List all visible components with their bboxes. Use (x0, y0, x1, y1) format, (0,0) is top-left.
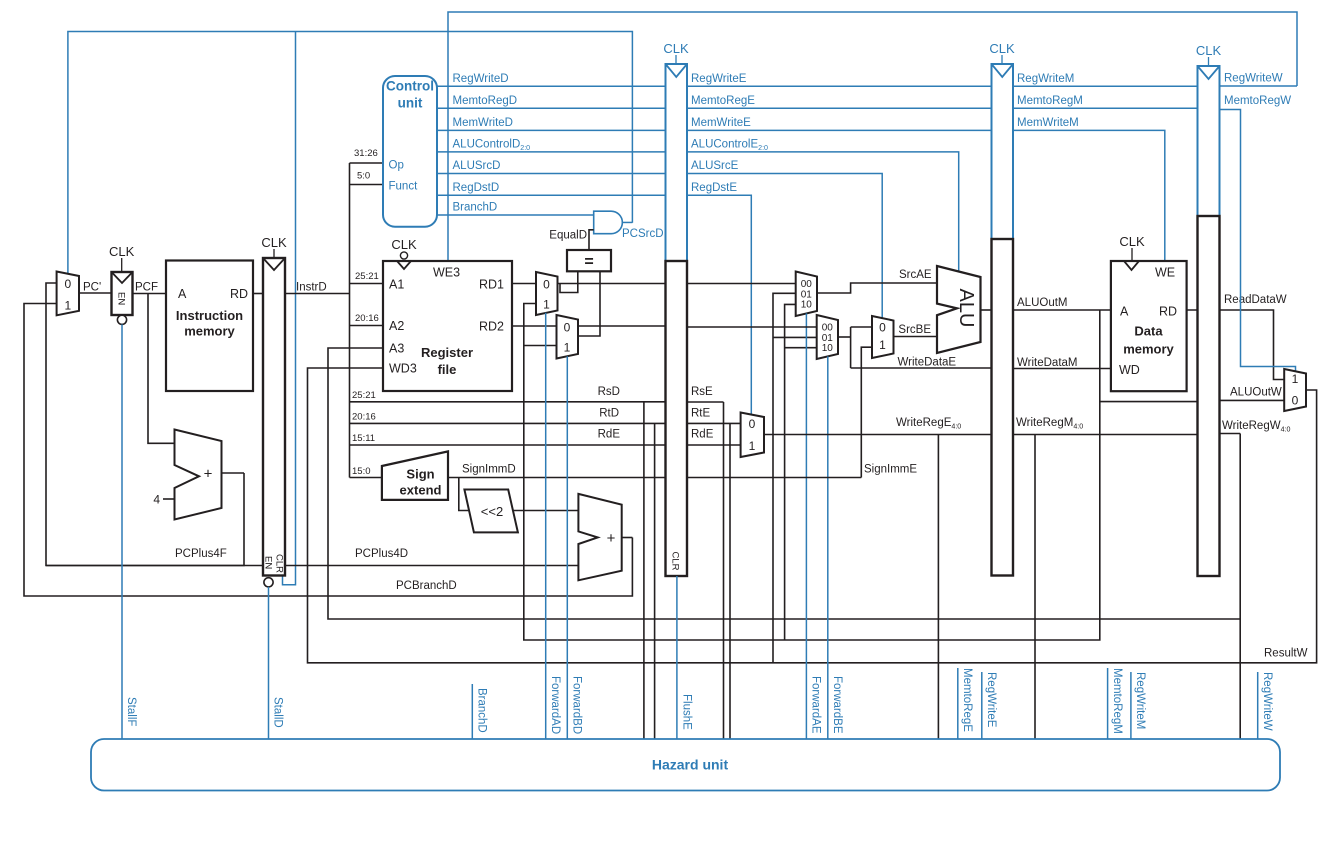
svg-text:CLK: CLK (391, 237, 417, 252)
svg-text:EqualD: EqualD (549, 230, 587, 242)
svg-text:0: 0 (564, 321, 571, 335)
svg-text:RdE: RdE (598, 429, 621, 441)
mux ForwardBE three-input (817, 315, 838, 359)
svg-text:SignImmD: SignImmD (462, 464, 516, 476)
svg-text:WE: WE (1155, 266, 1175, 280)
svg-text:A3: A3 (389, 342, 404, 356)
svg-text:ForwardBD: ForwardBD (571, 676, 583, 734)
svg-text:Control: Control (386, 79, 434, 94)
svg-text:BranchD: BranchD (453, 202, 498, 214)
alu ALU (937, 266, 981, 353)
wire BranchD stub to hazard (471, 684, 473, 739)
wire into ALUSrc mux input 0 (851, 326, 872, 328)
svg-text:BranchD: BranchD (476, 688, 488, 733)
svg-text:StallD: StallD (272, 697, 284, 728)
and gate PCSrcD (594, 211, 623, 234)
svg-text:FlushE: FlushE (681, 694, 693, 730)
svg-text:CLK: CLK (663, 41, 689, 56)
wire RegWriteW stub to hazard (1257, 672, 1259, 739)
svg-text:PCSrcD: PCSrcD (622, 228, 664, 240)
svg-text:MemtoRegM: MemtoRegM (1111, 668, 1123, 734)
svg-text:RegWriteM: RegWriteM (1134, 672, 1146, 729)
wire ForwardBD select (566, 356, 568, 739)
wire MemtoRegD (437, 107, 666, 109)
wire WriteRegM (1013, 434, 1198, 436)
wire fwd mux A output SrcAE (817, 283, 937, 293)
svg-text:CLK: CLK (109, 244, 135, 259)
register PCF (112, 272, 133, 315)
svg-text:WriteRegE4:0: WriteRegE4:0 (896, 417, 961, 431)
svg-text:PCPlus4D: PCPlus4D (355, 548, 408, 560)
svg-text:WD: WD (1119, 363, 1140, 377)
wire RegWriteE (687, 85, 992, 87)
svg-text:+: + (204, 466, 213, 483)
wire RegWriteE stub to hazard (981, 672, 983, 739)
wire StallF (121, 324, 123, 739)
svg-text:unit: unit (398, 96, 423, 111)
mux ResultW final (1284, 369, 1306, 411)
svg-text:MemtoRegE: MemtoRegE (691, 95, 755, 107)
wire RD1 (512, 283, 536, 285)
wire equality tap B (578, 271, 600, 336)
svg-text:MemWriteD: MemWriteD (453, 117, 513, 129)
wire MemWriteM (1013, 130, 1165, 261)
svg-text:RegWriteW: RegWriteW (1261, 672, 1273, 731)
wire RegWriteW feedback top run (to RF WE3) (448, 12, 1297, 261)
svg-text:ALUSrcE: ALUSrcE (691, 160, 739, 172)
svg-text:MemtoRegE: MemtoRegE (961, 668, 973, 732)
constant 4 input (163, 498, 175, 500)
svg-text:15:0: 15:0 (352, 466, 371, 477)
svg-text:PCBranchD: PCBranchD (396, 580, 457, 592)
svg-text:0: 0 (64, 277, 71, 291)
wire EqualD (589, 230, 594, 250)
svg-text:EN: EN (263, 556, 274, 569)
svg-text:RtD: RtD (599, 408, 619, 420)
svg-text:15:11: 15:11 (352, 433, 375, 444)
wire ResultW riser to forwarding muxes input 01 (773, 293, 796, 663)
svg-text:ForwardAD: ForwardAD (549, 676, 561, 734)
wire ResultW tap to fwd mux B input 01 (773, 336, 817, 338)
wire PCSrcD branch to D register CLR (283, 32, 296, 585)
svg-text:SrcAE: SrcAE (899, 269, 932, 281)
svg-text:0: 0 (543, 278, 550, 292)
wire WriteDataM (1013, 368, 1111, 370)
svg-text:extend: extend (400, 483, 442, 498)
wire RegWriteW (1220, 85, 1298, 87)
wire PCPlus4F feedback row (46, 283, 244, 566)
wire PC prime (79, 292, 112, 294)
wire ALUOutW (1220, 399, 1285, 401)
svg-text:RegDstD: RegDstD (453, 182, 500, 194)
svg-text:A1: A1 (389, 278, 404, 292)
svg-text:1: 1 (879, 338, 886, 352)
svg-text:file: file (438, 362, 457, 377)
control unit (383, 76, 437, 227)
svg-text:1: 1 (564, 341, 571, 355)
svg-text:RD1: RD1 (479, 278, 504, 292)
svg-text:CLR: CLR (274, 554, 285, 573)
svg-text:WriteRegM4:0: WriteRegM4:0 (1016, 417, 1083, 431)
wire SrcA row into fwd mux A (687, 283, 796, 285)
wire adder-4 output (222, 472, 245, 474)
svg-text:10: 10 (822, 343, 834, 354)
svg-text:31:26: 31:26 (354, 148, 378, 159)
register W pipeline black section (1198, 216, 1220, 576)
svg-text:25:21: 25:21 (352, 390, 376, 401)
svg-text:RD: RD (1159, 305, 1177, 319)
wire RtE drop to hazard (729, 423, 731, 739)
wire 15:0 tap to sign extend (350, 477, 382, 479)
svg-text:Funct: Funct (389, 181, 419, 193)
register M pipeline blue control section (992, 64, 1014, 239)
wire Funct tap 5:0 (350, 184, 384, 186)
svg-text:WriteRegW4:0: WriteRegW4:0 (1222, 420, 1290, 434)
svg-text:ALUOutM: ALUOutM (1017, 297, 1068, 309)
wire RtE (687, 422, 741, 424)
svg-text:20:16: 20:16 (355, 313, 379, 324)
svg-text:MemtoRegD: MemtoRegD (453, 95, 518, 107)
svg-text:memory: memory (184, 324, 235, 339)
wire RegWriteM stub to hazard (1130, 672, 1132, 739)
wire SrcB row into fwd mux B (687, 326, 817, 328)
svg-text:0: 0 (1292, 394, 1299, 408)
sign extend (382, 451, 448, 500)
wire RsD drop to hazard (643, 402, 645, 739)
svg-text:1: 1 (64, 299, 71, 313)
svg-text:RD: RD (230, 287, 248, 301)
svg-text:ForwardBE: ForwardBE (831, 676, 843, 734)
wire RdD (350, 444, 666, 446)
svg-text:MemWriteM: MemWriteM (1017, 117, 1079, 129)
wire ForwardAD mux output / SrcA row (558, 283, 666, 285)
register file (383, 261, 512, 391)
enable bubble on D register (264, 578, 273, 587)
svg-text:0: 0 (879, 321, 886, 335)
wire WriteDataE (851, 367, 992, 369)
wire AND output PCSrcD (622, 221, 632, 223)
wire SignImmD (448, 477, 666, 479)
svg-text:RegWriteE: RegWriteE (691, 73, 747, 85)
wire SignImmE (687, 477, 861, 479)
wire equality tap A (560, 271, 578, 292)
wire RegDstE (687, 195, 751, 414)
wire MemtoRegW (1220, 110, 1296, 372)
svg-text:10: 10 (801, 300, 813, 311)
svg-text:ALU: ALU (955, 289, 977, 328)
wire ForwardAE select (805, 313, 807, 739)
wire RD2 (512, 325, 557, 327)
wire PCSrcD top run (68, 32, 633, 275)
wire ALUOutM forward to mux2 input 1 (524, 345, 557, 347)
wire ForwardBD mux output / SrcB row (578, 325, 666, 327)
wire ALUControlE 2:0 (687, 152, 959, 271)
wire BranchD (437, 214, 594, 216)
data memory (1111, 261, 1187, 391)
wire RegWriteM (1013, 85, 1198, 87)
svg-text:<<2: <<2 (481, 504, 503, 519)
svg-text:CLK: CLK (989, 41, 1015, 56)
svg-text:MemtoRegM: MemtoRegM (1017, 95, 1083, 107)
svg-text:+: + (607, 530, 616, 547)
wire RtD (350, 422, 666, 424)
svg-text:Register: Register (421, 345, 473, 360)
wire MemtoRegE stub to hazard (957, 668, 959, 739)
wire ALUSrcE (687, 174, 882, 319)
mux ForwardAD (536, 272, 558, 315)
wire fwd mux B output (838, 336, 851, 338)
svg-text:=: = (584, 254, 593, 271)
svg-text:RsD: RsD (598, 386, 620, 398)
mux ForwardAE three-input (796, 272, 817, 317)
wire RsE drop to hazard (723, 402, 725, 739)
register D pipeline (263, 258, 285, 576)
wire RtD drop to hazard (654, 423, 656, 739)
wire MemtoRegE (687, 107, 992, 109)
wire InstrD (285, 293, 350, 295)
wire RegWriteD (437, 85, 666, 87)
svg-text:CLK: CLK (1196, 43, 1222, 58)
wire WriteRegW (1220, 433, 1241, 435)
wire ALUOutM tap to fwd mux B input 10 (785, 347, 817, 349)
wire instruction memory RD to D register (253, 293, 263, 295)
svg-text:5:0: 5:0 (357, 171, 370, 182)
svg-text:RegWriteD: RegWriteD (453, 73, 509, 85)
svg-text:EN: EN (116, 292, 127, 305)
svg-text:25:21: 25:21 (355, 271, 379, 282)
wire StallD (268, 587, 270, 739)
wire WriteRegW to A3 feedback row (328, 348, 1240, 619)
svg-text:ALUOutW: ALUOutW (1230, 387, 1282, 399)
svg-text:20:16: 20:16 (352, 412, 376, 423)
svg-text:WE3: WE3 (433, 266, 460, 280)
svg-text:ALUControlD2:0: ALUControlD2:0 (453, 139, 531, 153)
svg-text:PCPlus4F: PCPlus4F (175, 548, 227, 560)
wire Op tap 31:26 (350, 162, 384, 164)
wire ALUOutW under data memory (1100, 401, 1198, 403)
svg-text:SignImmE: SignImmE (864, 464, 917, 476)
svg-text:Op: Op (389, 160, 404, 172)
wire PCF (133, 293, 167, 295)
svg-text:1: 1 (749, 439, 756, 453)
svg-text:RsE: RsE (691, 386, 713, 398)
svg-text:Instruction: Instruction (176, 308, 243, 323)
svg-text:RtE: RtE (691, 408, 711, 420)
mux ALUSrc (872, 316, 894, 358)
svg-text:CLR: CLR (670, 552, 681, 571)
svg-text:A: A (178, 287, 187, 301)
svg-text:CLK: CLK (261, 235, 287, 250)
wire WriteRegE drop to hazard (937, 435, 939, 740)
adder plus-4 (175, 430, 222, 520)
svg-text:Hazard unit: Hazard unit (652, 757, 729, 773)
wire ALUOutM (1013, 309, 1111, 311)
wire branch adder output (622, 537, 633, 539)
svg-text:RegDstE: RegDstE (691, 182, 737, 194)
svg-text:ForwardAE: ForwardAE (810, 676, 822, 734)
svg-text:WriteDataM: WriteDataM (1017, 357, 1078, 369)
wire ForwardAD select (545, 313, 547, 739)
wire A1 tap 25:21 (350, 283, 384, 285)
wire SignImmD drop to shifter (459, 478, 469, 511)
mux PC source (57, 272, 79, 316)
svg-text:RdE: RdE (691, 429, 714, 441)
svg-text:memory: memory (1123, 342, 1174, 357)
svg-text:ALUSrcD: ALUSrcD (453, 160, 501, 172)
wire PCPlus4D (285, 565, 578, 567)
bus InstrD vertical (349, 163, 351, 478)
wire ALU output (981, 309, 992, 311)
svg-text:StallF: StallF (125, 697, 137, 726)
svg-text:RegWriteM: RegWriteM (1017, 73, 1074, 85)
register M pipeline black section (992, 239, 1014, 576)
wire ALUOutM forwarding row (524, 304, 1100, 641)
svg-text:RegWriteE: RegWriteE (985, 672, 997, 728)
hazard unit (91, 739, 1280, 791)
svg-text:1: 1 (1292, 372, 1299, 386)
wire WriteDataE riser (850, 327, 852, 368)
svg-text:RegWriteW: RegWriteW (1224, 73, 1283, 85)
wire ResultW feedback row (308, 368, 1317, 663)
wire PCBranchD feedback row (24, 304, 632, 597)
wire shifter output to branch adder (513, 510, 578, 512)
svg-text:CLK: CLK (1119, 234, 1145, 249)
svg-text:ALUControlE2:0: ALUControlE2:0 (691, 139, 768, 153)
svg-text:InstrD: InstrD (296, 282, 327, 294)
svg-text:MemtoRegW: MemtoRegW (1224, 95, 1291, 107)
wire RdE (687, 444, 741, 446)
register E pipeline black section (666, 261, 688, 576)
svg-text:A: A (1120, 305, 1129, 319)
wire ALUControlD 2:0 (437, 151, 666, 153)
wire PCF tap to +4 adder (148, 294, 175, 444)
mux WriteReg RegDst (741, 413, 764, 458)
shifter left 2 (464, 490, 518, 533)
wire SignImmE riser to ALUSrc mux (861, 347, 872, 477)
wire RegDstD (437, 194, 666, 196)
svg-text:1: 1 (543, 298, 550, 312)
register W pipeline blue control section (1198, 66, 1220, 216)
wire ALUOutM riser to forwarding muxes input 10 (785, 304, 796, 640)
svg-text:ReadDataW: ReadDataW (1224, 294, 1287, 306)
comparator equals (567, 250, 611, 271)
wire ForwardBE select (827, 356, 829, 739)
wire MemWriteD (437, 129, 666, 131)
wire MemWriteE (687, 129, 992, 131)
svg-text:MemWriteE: MemWriteE (691, 117, 751, 129)
svg-text:SrcBE: SrcBE (898, 324, 931, 336)
svg-text:WD3: WD3 (389, 362, 417, 376)
mux ForwardBD (557, 315, 579, 359)
register E pipeline blue control section (666, 64, 688, 261)
svg-text:PC': PC' (83, 282, 101, 294)
svg-text:WriteDataE: WriteDataE (898, 357, 957, 369)
svg-text:PCF: PCF (135, 282, 158, 294)
svg-text:A2: A2 (389, 319, 404, 333)
wire WriteRegE (764, 434, 992, 436)
wire RsE (687, 401, 724, 403)
wire FlushE (676, 576, 678, 739)
svg-text:RD2: RD2 (479, 320, 504, 334)
svg-text:0: 0 (749, 417, 756, 431)
svg-text:ResultW: ResultW (1264, 648, 1308, 660)
enable bubble on PCF (117, 315, 126, 324)
wire RsD (350, 401, 666, 403)
wire SrcBE into ALU (894, 336, 938, 338)
wire WriteRegW drop to hazard unit (1239, 619, 1241, 739)
wire A2 tap 20:16 (350, 325, 384, 327)
branch adder (578, 494, 621, 580)
svg-text:Sign: Sign (406, 467, 434, 482)
wire ALUSrcD (437, 173, 666, 175)
wire ReadDataW (1187, 310, 1285, 380)
wire WriteRegM drop to hazard (1034, 435, 1036, 740)
instruction memory (166, 261, 253, 392)
wire MemtoRegM stub to hazard (1107, 668, 1109, 739)
wire MemtoRegM (1013, 107, 1198, 109)
svg-text:Data: Data (1134, 324, 1163, 339)
svg-text:4: 4 (153, 493, 160, 507)
